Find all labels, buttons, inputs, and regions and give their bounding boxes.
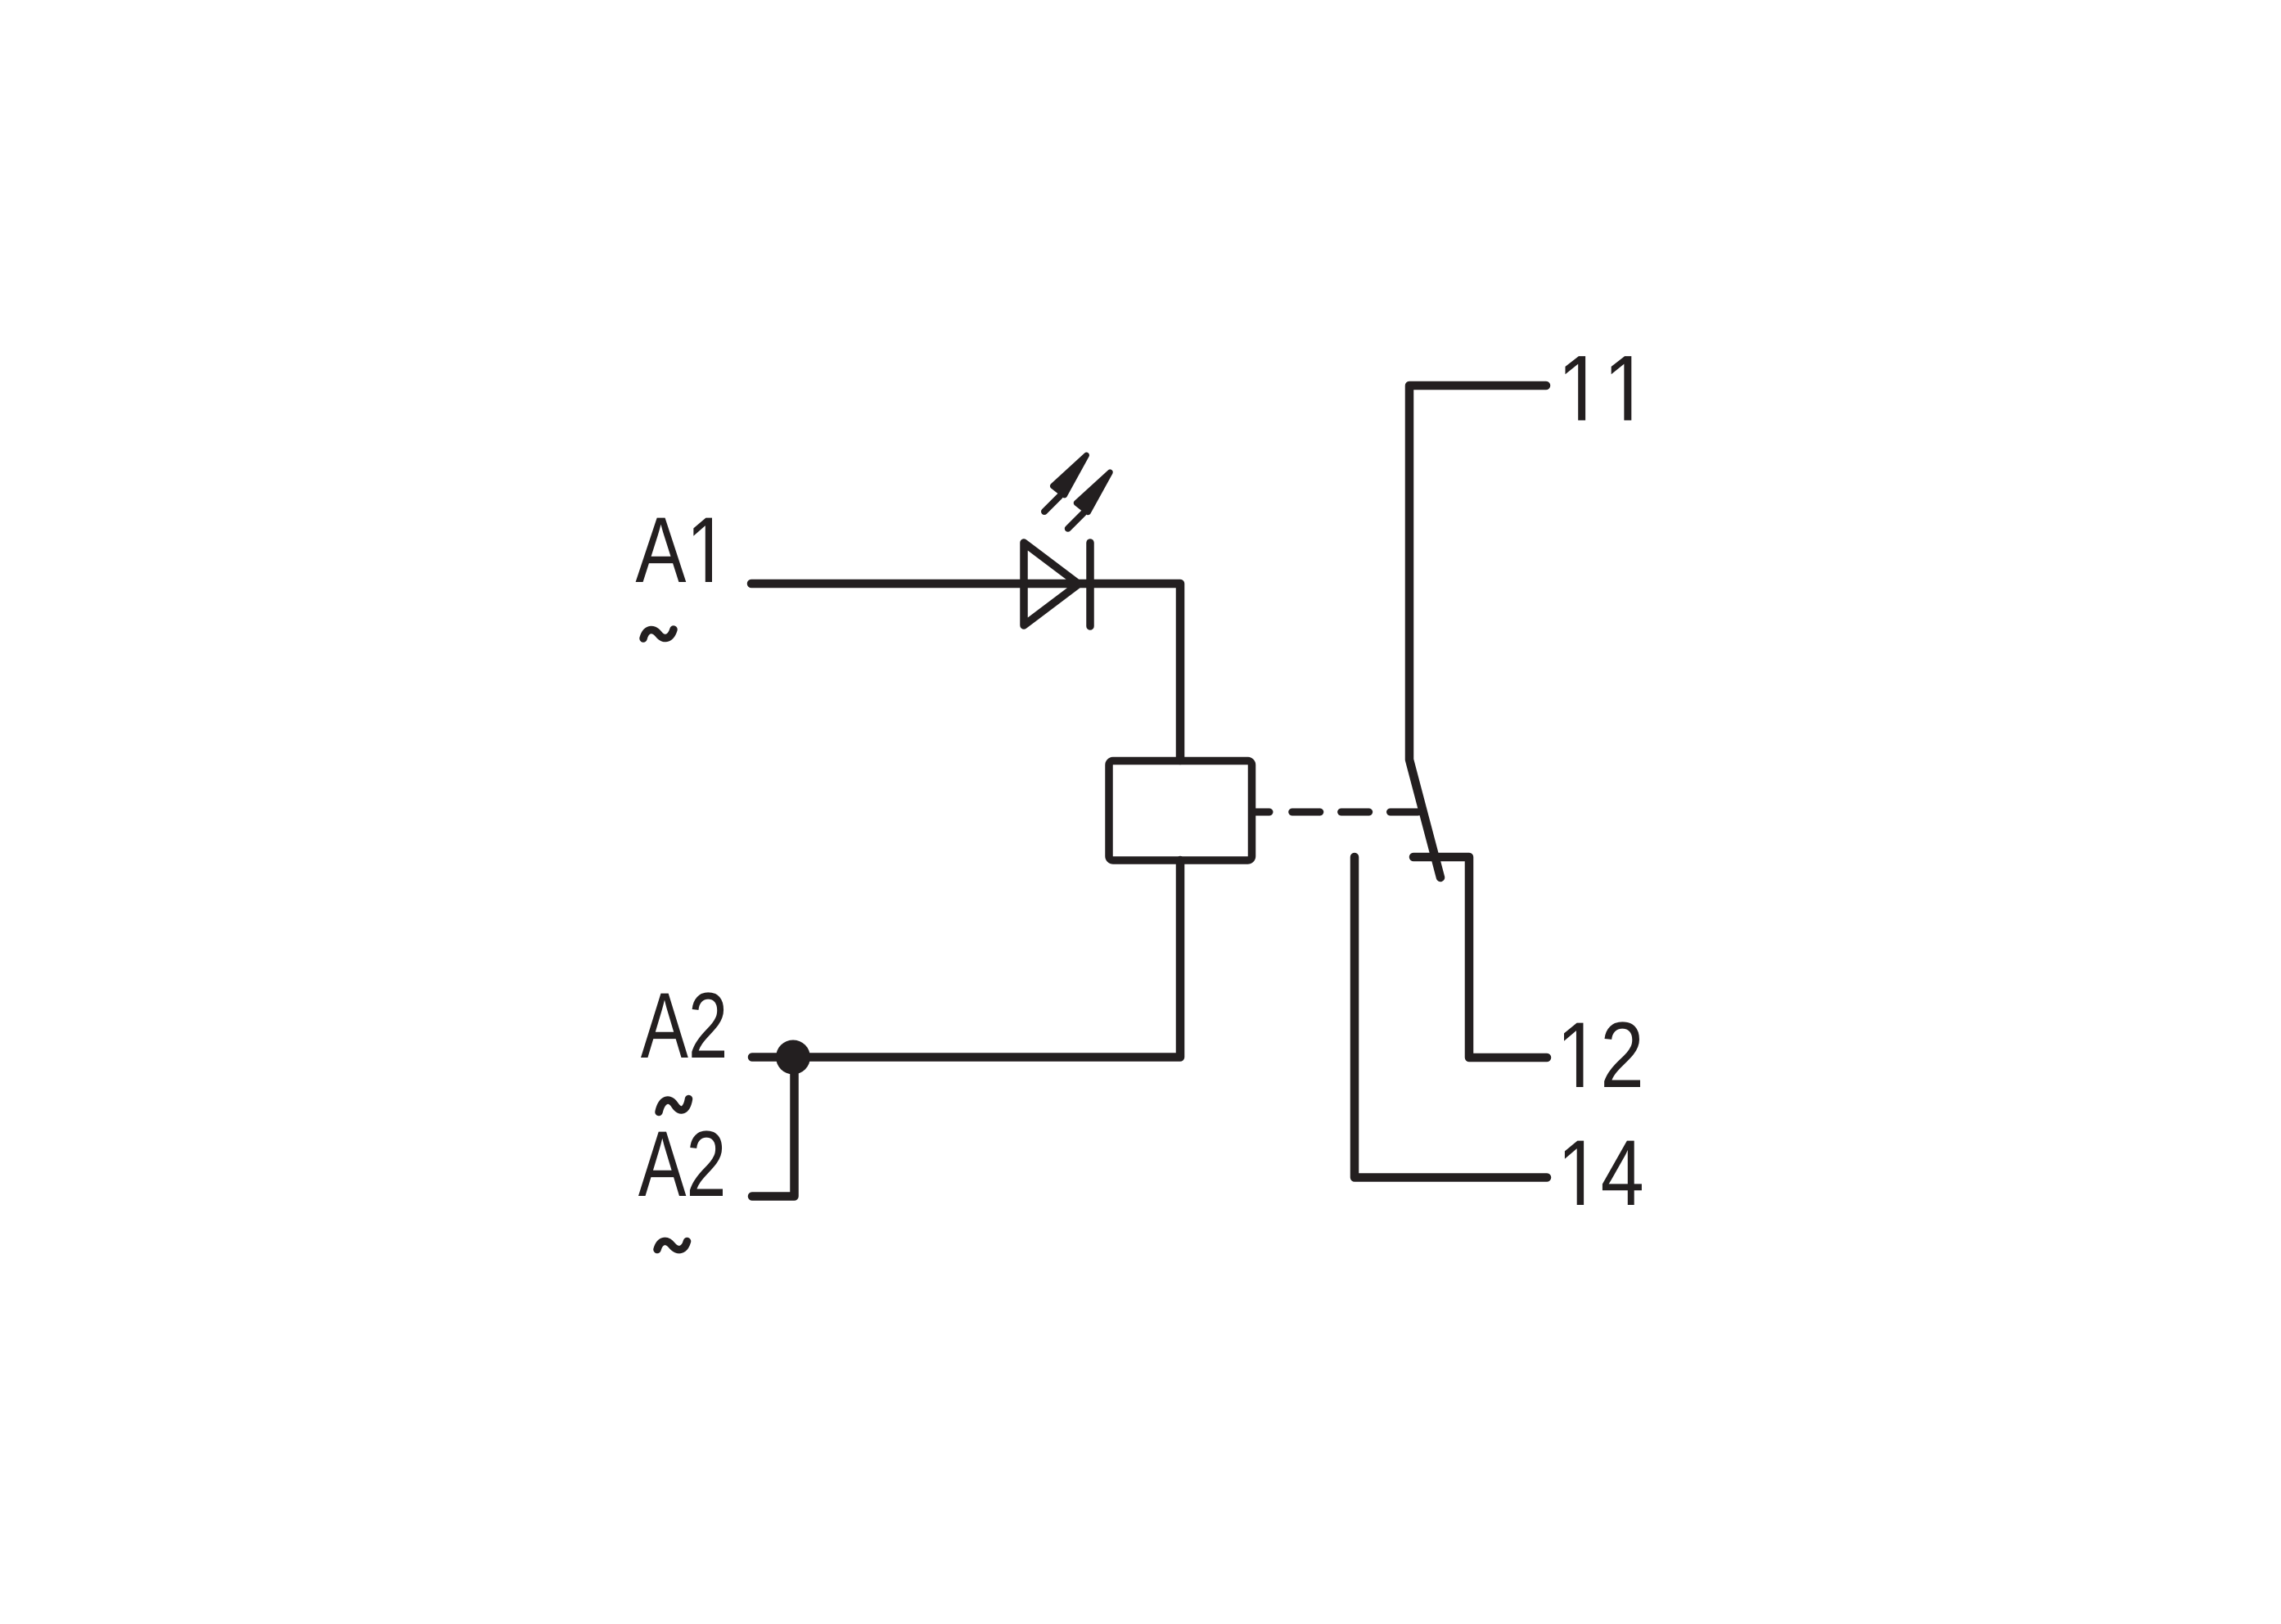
label terminal 12 (1564, 1022, 1640, 1087)
relay coil K1 (1109, 761, 1252, 861)
junction dot node A2 (776, 1040, 810, 1075)
label A2 (lower) (638, 1130, 723, 1196)
tilde under A1 (643, 629, 674, 638)
LED D1 cathode bar (1086, 543, 1094, 626)
tilde below lower A2 (657, 1241, 687, 1249)
LED emission arrow 2 (1068, 472, 1111, 529)
wire NC contact stub to terminal 12 (1413, 857, 1547, 1058)
dashed mechanical link (1255, 809, 1418, 816)
wire A2 lead to coil bottom (752, 860, 1180, 1058)
tilde over second A2 (659, 1099, 689, 1112)
LED D1 triangle (1024, 543, 1079, 625)
label A1 (636, 518, 712, 582)
wire NO contact to terminal 14 (1355, 857, 1547, 1178)
wire A1 lead to coil top (751, 584, 1180, 760)
wire A2-tilde drop from junction (752, 1058, 795, 1197)
label A2 (641, 992, 724, 1058)
wire terminal 11 lead and switch arm (1409, 386, 1546, 877)
label terminal 14 (1565, 1141, 1642, 1205)
LED emission arrow 1 (1044, 455, 1087, 512)
label terminal 11 (1565, 356, 1631, 420)
